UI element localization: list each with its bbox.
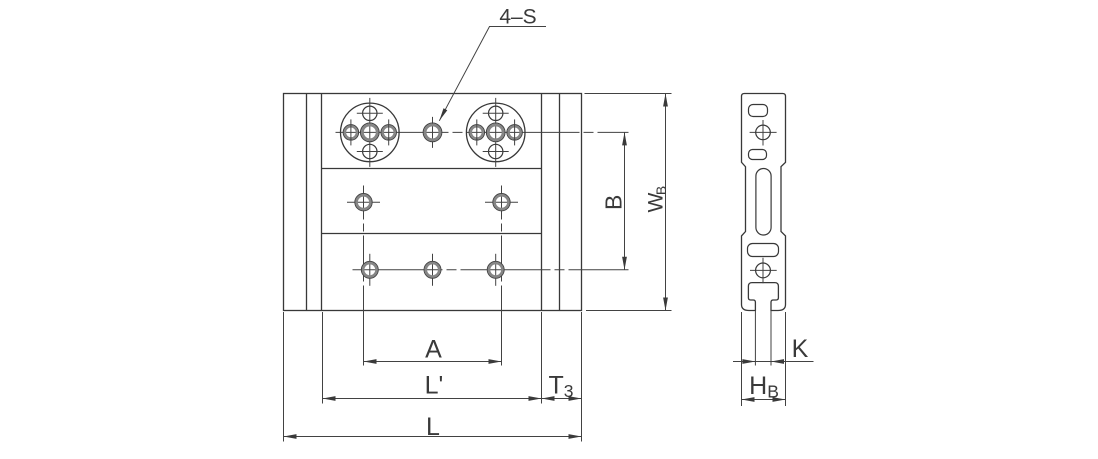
- left rail line 2: [321, 94, 323, 311]
- svg-text:4–S: 4–S: [499, 6, 536, 29]
- dimension A: [364, 361, 502, 363]
- extension line L right: [581, 312, 583, 442]
- extension line L' left: [322, 312, 324, 404]
- svg-text:WB: WB: [645, 186, 670, 213]
- extension line L left: [283, 312, 285, 442]
- right rail line 2: [559, 94, 561, 311]
- svg-text:L: L: [426, 413, 440, 441]
- leader 4-S: [439, 27, 546, 121]
- svg-text:T3: T3: [548, 372, 573, 402]
- hole row3 left: [361, 254, 378, 286]
- side circle 1: [750, 131, 777, 133]
- body band line upper: [322, 168, 542, 170]
- svg-text:HB: HB: [749, 372, 779, 402]
- dimension HB: [742, 399, 786, 401]
- dimension L: [284, 436, 582, 438]
- side circle 2: [750, 269, 777, 271]
- dimension K: [733, 361, 814, 363]
- extension line T3 left: [541, 312, 543, 404]
- dimension L' and T3: [323, 398, 582, 400]
- flange cluster left: [341, 98, 400, 167]
- right rail line 1: [541, 94, 543, 311]
- centerline row1 horizontal: [336, 131, 629, 133]
- side slot 2: [749, 150, 767, 160]
- extension lines K: [754, 311, 756, 366]
- side slot 1: [749, 105, 768, 117]
- centerline row2 right vertical: [501, 186, 503, 312]
- side view outline: [742, 94, 786, 311]
- svg-text:A: A: [425, 336, 442, 364]
- svg-text:K: K: [792, 335, 809, 363]
- main view outline: [284, 94, 582, 311]
- svg-text:B: B: [601, 195, 627, 210]
- body band line lower: [322, 233, 542, 235]
- hole row2 left: [347, 194, 380, 211]
- centerline row3 horizontal: [353, 269, 629, 271]
- hole 4-S top middle: [423, 117, 442, 148]
- flange cluster right: [466, 98, 525, 167]
- dimension WB: [585, 94, 672, 311]
- dimension B: [624, 132, 626, 269]
- hole row3 right: [487, 254, 504, 286]
- side slot 3: [748, 244, 779, 257]
- hole row3 middle: [424, 254, 441, 286]
- side long slot: [756, 169, 771, 236]
- hole row2 right: [485, 194, 518, 211]
- extension lines HB: [741, 312, 743, 406]
- left rail line 1: [306, 94, 308, 311]
- centerline row2 left vertical: [363, 186, 365, 312]
- svg-text:L': L': [425, 372, 444, 400]
